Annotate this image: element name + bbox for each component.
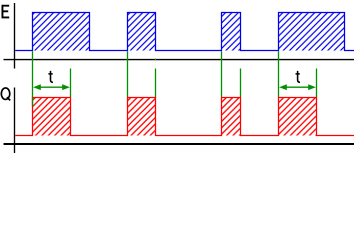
green marker line fall Q1 <box>70 69 72 98</box>
t dimension arrow 2 <box>279 84 316 90</box>
green overlay on Q rise 1 <box>32 97 34 106</box>
E axis horizontal <box>4 59 354 61</box>
label E <box>2 6 9 18</box>
label t 2 <box>296 71 301 82</box>
green marker line rise 4 <box>278 51 280 97</box>
Q waveform <box>15 98 354 136</box>
green marker line fall Q3 <box>240 69 242 98</box>
label Q <box>1 88 10 100</box>
green marker line fall Q4 <box>316 69 318 98</box>
label t 1 <box>48 71 53 82</box>
green marker line rise 2 <box>127 51 129 97</box>
t dimension arrow 1 <box>33 84 70 90</box>
E axis vertical <box>14 3 16 69</box>
E pulse 4 hatch <box>279 13 345 51</box>
E waveform <box>15 13 354 51</box>
green marker line rise 3 <box>221 51 223 97</box>
E pulse 1 hatch <box>33 13 90 51</box>
Q pulse 3 hatch <box>222 98 241 136</box>
green marker line fall Q2 <box>155 69 157 98</box>
green marker line rise 1 <box>32 51 34 97</box>
E pulse 2 hatch <box>128 13 156 51</box>
Q axis vertical <box>14 88 16 154</box>
Q pulse 1 hatch <box>33 98 71 136</box>
Q axis horizontal <box>4 143 354 145</box>
Q pulse 2 hatch <box>128 98 156 136</box>
E pulse 3 hatch <box>222 13 241 51</box>
green marker tick fall Q2 <box>155 59 157 61</box>
Q pulse 4 hatch <box>279 98 317 136</box>
